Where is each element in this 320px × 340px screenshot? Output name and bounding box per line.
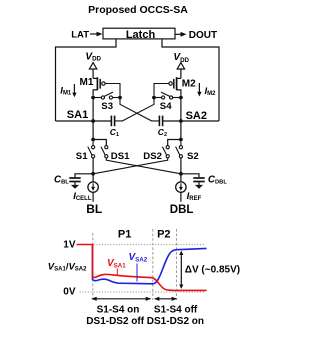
svg-text:SA2: SA2: [186, 110, 207, 122]
extent arrow P1: [94, 298, 151, 300]
extent arrow P2: [155, 298, 176, 300]
svg-text:0V: 0V: [63, 287, 76, 298]
node split left: [91, 138, 95, 142]
wire split to DS1: [93, 140, 106, 146]
wire S2 to DBL: [180, 158, 182, 174]
node DBL: [179, 172, 183, 176]
svg-text:C2: C2: [158, 127, 167, 138]
wire DBL to CDBL: [181, 174, 199, 177]
node G1: [118, 96, 122, 100]
svg-text:1V: 1V: [63, 240, 76, 251]
current source IREF: [176, 182, 186, 192]
wire IREF tail: [180, 192, 182, 201]
wire latch left output to SA1 rail: [56, 39, 117, 121]
wire DS2 to BL (diagonal): [93, 158, 168, 174]
wire G1 to C2 left plate (cross): [120, 98, 159, 121]
ground CDBL: [195, 185, 203, 189]
svg-text:VSA1/VSA2: VSA1/VSA2: [48, 261, 87, 272]
switch S2: [176, 141, 183, 158]
svg-text:S1-S4 off: S1-S4 off: [154, 305, 198, 316]
svg-text:DS1-DS2 off: DS1-DS2 off: [86, 316, 144, 327]
svg-text:VSA1: VSA1: [107, 258, 126, 270]
deltaV arrow: [180, 253, 182, 287]
svg-text:IM2: IM2: [205, 86, 217, 97]
wire BL to ICELL: [92, 174, 94, 182]
switch DS2: [162, 146, 169, 158]
svg-text:P1: P1: [118, 228, 131, 240]
VSA2 leader: [136, 264, 138, 282]
node SA2 junction: [179, 119, 183, 123]
svg-text:SA1: SA1: [67, 109, 88, 121]
svg-text:BL: BL: [86, 202, 102, 216]
svg-text:DS1-DS2 on: DS1-DS2 on: [147, 316, 204, 327]
svg-text:VDD: VDD: [85, 52, 101, 63]
svg-text:M2: M2: [182, 79, 196, 90]
svg-text:M1: M1: [80, 77, 94, 88]
wire VDD to M2 source: [180, 69, 182, 78]
svg-text:Latch: Latch: [126, 29, 156, 41]
svg-text:S2: S2: [187, 151, 199, 162]
current source ICELL: [88, 182, 98, 192]
svg-text:IM1: IM1: [60, 85, 72, 96]
VSA1 leader: [116, 269, 118, 275]
wire SA2 rail: [163, 120, 219, 122]
node BL: [91, 172, 95, 176]
VDD symbol right: [177, 63, 184, 69]
svg-text:DBL: DBL: [170, 204, 194, 216]
dashed phase line t2: [176, 229, 178, 300]
wire DBL to IREF: [180, 174, 182, 182]
VSA1 curve (red): [77, 245, 207, 291]
capacitor CBL: [69, 178, 80, 185]
wire ICELL tail: [92, 192, 94, 201]
capacitor CDBL: [193, 178, 204, 185]
svg-text:ICELL: ICELL: [73, 191, 92, 202]
VDD symbol left: [89, 63, 96, 69]
transistor M2: [169, 77, 181, 95]
capacitor C2: [159, 116, 162, 127]
wire VDD to M1 source: [92, 69, 94, 78]
dashed phase line t0: [92, 233, 94, 300]
IM1 current arrow: [73, 84, 75, 94]
svg-text:ΔV (~0.85V): ΔV (~0.85V): [185, 265, 240, 276]
svg-text:S1: S1: [76, 151, 88, 162]
wire G2 to C1 right plate (cross): [115, 98, 154, 121]
svg-text:VDD: VDD: [173, 52, 189, 64]
wire BL to CBL: [75, 174, 93, 177]
dashed phase line t1: [152, 229, 154, 300]
svg-text:Proposed OCCS-SA: Proposed OCCS-SA: [88, 4, 188, 16]
wire M1 gate to node G1: [105, 84, 120, 96]
ground CBL: [71, 185, 79, 189]
svg-text:C1: C1: [110, 127, 119, 138]
svg-text:P2: P2: [157, 228, 170, 240]
svg-text:CDBL: CDBL: [208, 175, 227, 186]
DOUT output arrow: [175, 33, 182, 35]
node SA1 junction: [91, 119, 95, 123]
svg-text:DOUT: DOUT: [189, 30, 217, 41]
svg-text:S4: S4: [160, 101, 172, 112]
switch S4: [156, 92, 179, 99]
switch S1: [88, 141, 95, 158]
svg-text:S1-S4 on: S1-S4 on: [97, 305, 140, 316]
switch S3: [95, 92, 118, 99]
wire split to DS2: [168, 140, 181, 146]
svg-text:CBL: CBL: [54, 175, 69, 186]
VSA2 curve (blue): [93, 245, 207, 284]
dotted 0V gridline: [80, 291, 206, 293]
svg-text:VSA2: VSA2: [129, 252, 148, 264]
wire M1 drain column: [92, 98, 94, 140]
LAT input arrow: [90, 33, 98, 35]
node G2: [152, 96, 156, 100]
wire M2 gate to node G2: [154, 84, 169, 96]
svg-text:LAT: LAT: [71, 29, 89, 40]
transistor M1: [93, 77, 105, 95]
svg-text:S3: S3: [101, 101, 113, 112]
wire DS1 to DBL (diagonal): [106, 158, 181, 174]
switch DS1: [101, 146, 108, 158]
capacitor C1: [111, 116, 114, 127]
node M2 drain: [179, 96, 183, 100]
wire SA1 rail: [56, 120, 112, 122]
node split right: [179, 138, 183, 142]
svg-text:IREF: IREF: [187, 191, 202, 202]
svg-text:DS2: DS2: [143, 151, 162, 162]
wire S1 to BL: [92, 158, 94, 174]
wire M2 drain column: [180, 98, 182, 140]
node M1 drain: [91, 96, 95, 100]
latch U1: [103, 28, 175, 39]
dotted 1V gridline: [94, 244, 206, 246]
svg-text:DS1: DS1: [111, 151, 130, 162]
wire latch right output to SA2 rail: [162, 39, 219, 121]
IM2 current arrow: [198, 83, 200, 93]
